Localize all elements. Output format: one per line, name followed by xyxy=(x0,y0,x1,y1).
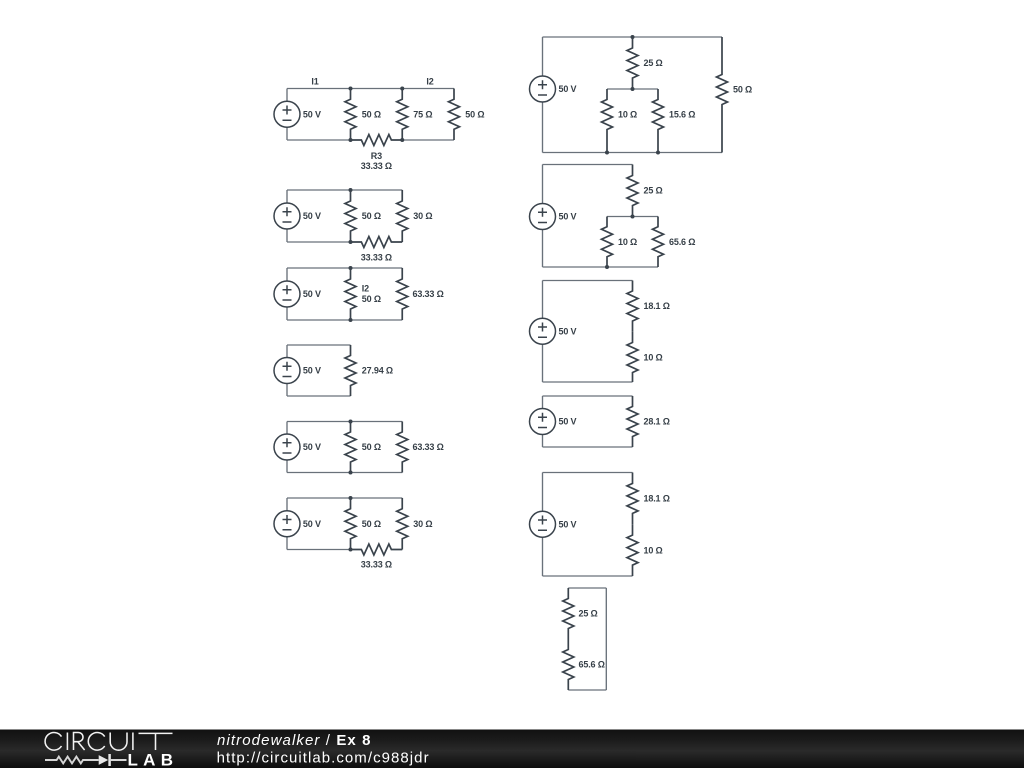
svg-text:25 Ω: 25 Ω xyxy=(644,58,663,68)
resistor 75 Ohm circuit 1 xyxy=(397,89,408,141)
wire top rail circuit 11 xyxy=(543,472,633,474)
wire bottom rail circuit 5 xyxy=(287,472,402,474)
resistor 50 Ohm circuit 1 xyxy=(345,89,356,141)
resistor 15.6 Ohm circuit 7 xyxy=(653,89,664,153)
node circuit 5 bottom xyxy=(349,471,353,475)
resistor 18.1 Ohm circuit 9 xyxy=(627,281,638,332)
label 50 Ohm circuit 3 xyxy=(362,294,381,304)
label 50 V circuit 3 xyxy=(303,289,321,299)
logo diode xyxy=(99,754,127,766)
node circuit 8 mid xyxy=(631,215,635,219)
svg-text:30 Ω: 30 Ω xyxy=(413,519,432,529)
voltage source V1 50 V xyxy=(274,89,300,141)
label 10 Ohm circuit 9 xyxy=(644,353,663,363)
label 10 Ohm circuit 8 xyxy=(618,237,637,247)
resistor R3 33.33 Ohm circuit 1 xyxy=(351,135,403,146)
node circuit 1 top a xyxy=(349,87,353,91)
resistor 50 Ohm circuit 7 xyxy=(717,37,728,153)
label 65.6 Ohm circuit 8 xyxy=(669,237,695,247)
resistor 63.33 Ohm circuit 5 xyxy=(397,422,408,473)
svg-text:50 V: 50 V xyxy=(303,519,321,529)
label 15.6 Ohm circuit 7 xyxy=(669,110,695,120)
svg-text:63.33 Ω: 63.33 Ω xyxy=(413,442,444,452)
resistor I2 50 Ohm circuit 3 xyxy=(345,268,356,320)
resistor 33.33 Ohm circuit 2 xyxy=(351,237,403,248)
resistor 30 Ohm circuit 2 xyxy=(397,190,408,242)
svg-text:33.33 Ω: 33.33 Ω xyxy=(361,161,392,171)
voltage source V2 50 V xyxy=(274,190,300,242)
node circuit 7 mid xyxy=(631,87,635,91)
label 25 Ohm circuit 7 xyxy=(644,58,663,68)
svg-text:50 Ω: 50 Ω xyxy=(362,294,381,304)
label 25 Ohm circuit 12 xyxy=(579,609,598,619)
label 65.6 Ohm circuit 12 xyxy=(579,660,605,670)
voltage source V8 50 V xyxy=(530,165,556,268)
resistor 10 Ohm circuit 11 xyxy=(627,524,638,576)
svg-text:30 Ω: 30 Ω xyxy=(413,211,432,221)
voltage source V3 50 V xyxy=(274,268,300,320)
node circuit 3 bottom xyxy=(349,318,353,322)
wire bottom rail circuit 2 xyxy=(287,241,351,243)
svg-text:25 Ω: 25 Ω xyxy=(644,186,663,196)
label 50 V circuit 11 xyxy=(559,519,577,529)
label 33.33 Ohm circuit 6 xyxy=(361,560,392,570)
resistor 27.94 Ohm circuit 4 xyxy=(345,345,356,396)
svg-text:65.6 Ω: 65.6 Ω xyxy=(669,237,695,247)
svg-text:I1: I1 xyxy=(311,77,318,87)
node circuit 2 bottom xyxy=(349,240,353,244)
wire top rail circuit 7 xyxy=(543,36,723,38)
svg-text:28.1 Ω: 28.1 Ω xyxy=(644,417,670,427)
voltage source V9 50 V xyxy=(530,281,556,383)
footer bar xyxy=(0,730,1024,768)
svg-text:50 V: 50 V xyxy=(303,366,321,376)
wire bottom rail circuit 6 xyxy=(287,549,351,551)
label 10 Ohm circuit 11 xyxy=(644,545,663,555)
svg-text:50 Ω: 50 Ω xyxy=(362,442,381,452)
label 18.1 Ohm circuit 9 xyxy=(644,301,670,311)
wire bottom rail circuit 10 xyxy=(543,446,633,448)
svg-text:10 Ω: 10 Ω xyxy=(644,353,663,363)
svg-text:10 Ω: 10 Ω xyxy=(644,545,663,555)
svg-text:50 V: 50 V xyxy=(303,211,321,221)
svg-text:10 Ω: 10 Ω xyxy=(618,110,637,120)
wire bottom rail circuit 4 xyxy=(287,395,351,397)
resistor 63.33 Ohm circuit 3 xyxy=(397,268,408,320)
svg-text:50 V: 50 V xyxy=(303,289,321,299)
svg-text:75 Ω: 75 Ω xyxy=(413,109,432,119)
svg-text:R3: R3 xyxy=(371,151,382,161)
wire right rail circuit 12 xyxy=(605,588,607,690)
label 50 Ohm circuit 6 xyxy=(362,519,381,529)
svg-text:63.33 Ω: 63.33 Ω xyxy=(413,289,444,299)
node circuit 7 bottom b xyxy=(656,151,660,155)
resistor 25 Ohm circuit 8 xyxy=(627,165,638,217)
wire top rail circuit 8 xyxy=(543,164,633,166)
svg-text:50 V: 50 V xyxy=(559,212,577,222)
svg-text:50 Ω: 50 Ω xyxy=(362,211,381,221)
resistor 50 Ohm circuit 6 xyxy=(345,498,356,550)
wire bottom rail left circuit 1 xyxy=(287,139,351,141)
label 50 V circuit 6 xyxy=(303,519,321,529)
label 33.33 Ohm circuit 1 xyxy=(361,161,392,171)
resistor 10 Ohm circuit 7 xyxy=(602,89,613,153)
svg-text:50 V: 50 V xyxy=(559,84,577,94)
wire top rail circuit 9 xyxy=(543,280,633,282)
label 30 Ohm circuit 2 xyxy=(413,211,432,221)
label 50 Ohm right circuit 1 xyxy=(465,109,484,119)
resistor 30 Ohm circuit 6 xyxy=(397,498,408,550)
resistor 18.1 Ohm circuit 11 xyxy=(627,473,638,525)
label 25 Ohm circuit 8 xyxy=(644,186,663,196)
svg-text:33.33 Ω: 33.33 Ω xyxy=(361,560,392,570)
node circuit 1 bottom a xyxy=(349,138,353,142)
footer title nitrodewalker / Ex 8 xyxy=(217,732,372,749)
svg-text:50 Ω: 50 Ω xyxy=(362,109,381,119)
node circuit 2 top xyxy=(349,188,353,192)
svg-text:25 Ω: 25 Ω xyxy=(579,609,598,619)
label 50 V circuit 5 xyxy=(303,442,321,452)
label 50 V circuit 2 xyxy=(303,211,321,221)
node circuit 3 top xyxy=(349,266,353,270)
wire top rail circuit 10 xyxy=(543,395,633,397)
node circuit 1 top b xyxy=(400,87,404,91)
node circuit 5 top xyxy=(349,420,353,424)
logo resistor zigzag xyxy=(45,757,99,764)
resistor 33.33 Ohm circuit 6 xyxy=(351,544,403,555)
label 50 V circuit 8 xyxy=(559,212,577,222)
node circuit 7 top xyxy=(631,35,635,39)
svg-text:50 Ω: 50 Ω xyxy=(733,85,752,95)
voltage source V7 50 V xyxy=(530,37,556,153)
resistor 65.6 Ohm circuit 8 xyxy=(653,217,664,268)
label 50 Ohm circuit 7 xyxy=(733,85,752,95)
voltage source V4 50 V xyxy=(274,345,300,396)
resistor 25 Ohm circuit 12 xyxy=(563,588,574,639)
resistor 65.6 Ohm circuit 12 xyxy=(563,639,574,690)
resistor 10 Ohm circuit 9 xyxy=(627,331,638,382)
node circuit 7 bottom a xyxy=(605,151,609,155)
wire bottom rail circuit 3 xyxy=(287,319,402,321)
svg-text:15.6 Ω: 15.6 Ω xyxy=(669,110,695,120)
svg-text:18.1 Ω: 18.1 Ω xyxy=(644,301,670,311)
label 28.1 Ohm circuit 10 xyxy=(644,417,670,427)
label 10 Ohm circuit 7 xyxy=(618,110,637,120)
label 50 V circuit 4 xyxy=(303,366,321,376)
label I2 circuit 3 xyxy=(362,284,369,294)
node circuit 1 bottom b xyxy=(400,138,404,142)
wire mid rail circuit 7 xyxy=(607,88,658,90)
svg-text:I2: I2 xyxy=(426,77,433,87)
label 50 Ohm circuit 2 xyxy=(362,211,381,221)
label 50 V circuit 1 xyxy=(303,109,321,119)
wire mid rail circuit 8 xyxy=(607,216,658,218)
label 30 Ohm circuit 6 xyxy=(413,519,432,529)
svg-text:50 V: 50 V xyxy=(303,109,321,119)
svg-text:I2: I2 xyxy=(362,284,369,294)
svg-text:50 V: 50 V xyxy=(559,417,577,427)
wire bottom rail right circuit 1 xyxy=(402,139,454,141)
svg-text:27.94 Ω: 27.94 Ω xyxy=(362,366,393,376)
wire top rail circuit 2 xyxy=(287,189,402,191)
label 50 Ohm circuit 5 xyxy=(362,442,381,452)
svg-text:50 Ω: 50 Ω xyxy=(362,519,381,529)
wire top rail circuit 3 xyxy=(287,267,402,269)
resistor 10 Ohm circuit 8 xyxy=(602,217,613,268)
svg-text:33.33 Ω: 33.33 Ω xyxy=(361,253,392,263)
svg-text:50 V: 50 V xyxy=(559,519,577,529)
wire bottom rail circuit 9 xyxy=(543,381,633,383)
logo word CIRCUIT xyxy=(45,732,172,750)
label 18.1 Ohm circuit 11 xyxy=(644,494,670,504)
wire bottom rail circuit 12 xyxy=(568,689,606,691)
resistor 50 Ohm circuit 5 xyxy=(345,422,356,473)
voltage source V6 50 V xyxy=(274,498,300,550)
resistor 50 Ohm right circuit 1 xyxy=(449,89,460,141)
voltage source V5 50 V xyxy=(274,422,300,473)
svg-text:18.1 Ω: 18.1 Ω xyxy=(644,494,670,504)
label 50 V circuit 9 xyxy=(559,326,577,336)
label 63.33 Ohm circuit 3 xyxy=(413,289,444,299)
svg-text:LAB: LAB xyxy=(128,750,174,768)
node circuit 6 top xyxy=(349,496,353,500)
voltage source V11 50 V xyxy=(530,473,556,577)
voltage source V10 50 V xyxy=(530,396,556,447)
label 50 Ohm circuit 1 xyxy=(362,109,381,119)
svg-text:50 Ω: 50 Ω xyxy=(465,109,484,119)
svg-text:10 Ω: 10 Ω xyxy=(618,237,637,247)
svg-text:65.6 Ω: 65.6 Ω xyxy=(579,660,605,670)
footer url xyxy=(217,749,430,766)
label 50 V circuit 7 xyxy=(559,84,577,94)
wire bottom rail circuit 8 xyxy=(543,266,659,268)
label I1 xyxy=(311,77,318,87)
node circuit 8 bottom xyxy=(605,265,609,269)
svg-text:50 V: 50 V xyxy=(303,442,321,452)
logo word LAB xyxy=(128,750,174,768)
svg-text:nitrodewalker / Ex 8: nitrodewalker / Ex 8 xyxy=(217,732,372,749)
label 50 V circuit 10 xyxy=(559,417,577,427)
wire top rail circuit 6 xyxy=(287,497,402,499)
wire top rail circuit 5 xyxy=(287,421,402,423)
svg-text:http://circuitlab.com/c988jdr: http://circuitlab.com/c988jdr xyxy=(217,749,430,766)
wire top rail circuit 4 xyxy=(287,344,351,346)
label I2 circuit 1 xyxy=(426,77,433,87)
label 75 Ohm circuit 1 xyxy=(413,109,432,119)
svg-text:50 V: 50 V xyxy=(559,326,577,336)
node circuit 6 bottom xyxy=(349,548,353,552)
label 63.33 Ohm circuit 5 xyxy=(413,442,444,452)
label R3 xyxy=(371,151,382,161)
resistor 28.1 Ohm circuit 10 xyxy=(627,396,638,447)
label 27.94 Ohm circuit 4 xyxy=(362,366,393,376)
wire bottom rail circuit 7 xyxy=(543,152,723,154)
wire bottom rail circuit 11 xyxy=(543,575,633,577)
resistor 50 Ohm circuit 2 xyxy=(345,190,356,242)
label 33.33 Ohm circuit 2 xyxy=(361,253,392,263)
resistor 25 Ohm circuit 7 xyxy=(627,37,638,89)
wire top rail circuit 1 xyxy=(287,88,454,90)
wire top rail circuit 12 xyxy=(568,587,606,589)
